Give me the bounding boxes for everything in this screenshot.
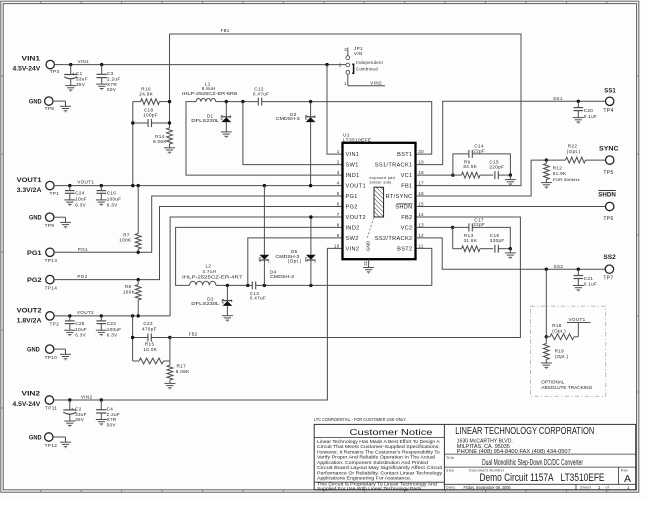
title block company — [455, 426, 594, 455]
pin 15 SHDN — [395, 202, 424, 211]
junction VOUT1 R10 branch — [131, 184, 134, 187]
node VOUT2 net label — [77, 310, 94, 315]
svg-text:VOUT1: VOUT1 — [569, 317, 586, 322]
svg-text:3: 3 — [314, 115, 316, 119]
svg-text:6: 6 — [337, 202, 340, 207]
node VIN2 net label — [81, 394, 93, 399]
svg-text:VOUT1: VOUT1 — [77, 180, 94, 185]
capacitor C21 — [573, 269, 597, 291]
svg-text:FB1: FB1 — [401, 184, 412, 190]
svg-text:C22: C22 — [143, 321, 153, 326]
capacitor C18 — [133, 108, 170, 127]
svg-text:C4: C4 — [107, 406, 114, 411]
svg-text:6.3V: 6.3V — [107, 333, 118, 338]
svg-text:31.6K: 31.6K — [464, 238, 478, 243]
svg-text:GND: GND — [366, 240, 371, 251]
svg-text:GND: GND — [29, 435, 42, 442]
wire PG1 row to pin 5 — [54, 196, 342, 252]
junction C2 — [68, 398, 71, 401]
svg-text:17: 17 — [418, 181, 424, 186]
svg-text:DFLS230L: DFLS230L — [191, 301, 220, 306]
wire C12 to BST1 — [262, 102, 432, 155]
svg-text:3: 3 — [230, 115, 232, 119]
diode D3 — [276, 102, 316, 186]
junction VOUT2 FB2 branch — [131, 314, 134, 317]
svg-text:TP14: TP14 — [45, 286, 58, 291]
svg-text:20: 20 — [418, 149, 424, 154]
terminal VIN1 TP3 — [13, 55, 60, 74]
svg-text:RT/SYNC: RT/SYNC — [386, 194, 413, 200]
optional absolute tracking box — [531, 306, 606, 396]
svg-text:VIN1: VIN1 — [78, 59, 90, 64]
wire pin13 VC2 — [416, 226, 453, 228]
capacitor C1 — [64, 65, 88, 92]
junction SW1 branch — [241, 100, 244, 103]
wire pin19 to SS1 row — [416, 101, 606, 164]
svg-text:0.47uF: 0.47uF — [250, 296, 266, 301]
pin 6 PG2 — [337, 202, 358, 211]
svg-text:OPTIONAL: OPTIONAL — [541, 379, 565, 384]
svg-text:FB1: FB1 — [221, 28, 230, 33]
terminal PG2 TP14 — [27, 275, 57, 290]
svg-text:C25: C25 — [75, 321, 85, 326]
svg-text:FB2: FB2 — [401, 215, 412, 221]
resistor R8 — [123, 280, 141, 316]
terminal SS1 TP4 — [603, 87, 615, 114]
pin 10 VIN2 — [334, 243, 359, 252]
junction C3 — [100, 63, 103, 66]
svg-text:VOUT1: VOUT1 — [346, 184, 366, 190]
wire VIN1 to pin 1 — [327, 65, 343, 155]
capacitor C15 — [489, 160, 510, 179]
svg-text:SW2: SW2 — [346, 236, 359, 242]
inductor L1 — [182, 81, 238, 101]
svg-text:FB2: FB2 — [189, 331, 198, 336]
svg-text:IND2: IND2 — [346, 226, 360, 232]
diode D2 — [191, 285, 233, 321]
resistor R9 — [453, 159, 493, 178]
junction D5 cathode — [263, 284, 266, 287]
svg-text:(Opt.): (Opt.) — [555, 354, 569, 359]
junction C19 right — [509, 247, 512, 250]
junction VIN1 pin1 branch — [325, 63, 328, 66]
pin 7 VOUT2 — [337, 212, 366, 221]
svg-text:1: 1 — [627, 485, 630, 490]
node PG1 net label — [78, 247, 88, 252]
capacitor C4 — [96, 400, 120, 427]
junction R18 R19 — [545, 335, 548, 338]
svg-text:PHONE (408) 954-8400 FAX (408: PHONE (408) 954-8400 FAX (408) 434-0507 — [457, 449, 571, 455]
resistor R10 — [133, 87, 170, 105]
ground VC1 — [505, 175, 516, 185]
svg-text:4.5V-24V: 4.5V-24V — [13, 401, 41, 408]
junction VOUT1 C16 — [100, 184, 103, 187]
pin 8 IND2 — [337, 222, 360, 231]
svg-text:TP3: TP3 — [50, 69, 60, 74]
title block frame — [314, 424, 636, 489]
wire C13 to BST2 — [256, 248, 432, 285]
wire R10 C18 left vertical to VOUT1 — [132, 102, 134, 186]
resistor R13 — [453, 227, 494, 251]
wire L2 to C13 — [216, 284, 252, 286]
svg-text:8.06K: 8.06K — [176, 369, 190, 374]
wire SW1 pin2 — [243, 102, 343, 165]
svg-text:10uF: 10uF — [75, 327, 87, 332]
terminal GND TP8 — [29, 97, 71, 112]
junction PG1 R7 — [137, 251, 140, 254]
junction C15 right — [509, 173, 512, 176]
wire SS2 to R18 — [545, 269, 547, 337]
svg-text:R18: R18 — [552, 323, 562, 328]
svg-text:PG1: PG1 — [78, 247, 88, 252]
svg-text:SYNC: SYNC — [599, 146, 619, 153]
svg-text:9: 9 — [337, 233, 340, 238]
ground VC2 — [505, 249, 516, 259]
capacitor C2 — [63, 400, 87, 427]
capacitor C20 — [573, 101, 597, 123]
svg-text:1: 1 — [344, 81, 347, 86]
svg-text:However, It Remains The Custom: However, It Remains The Customer's Respo… — [317, 449, 440, 454]
wire IND1 to L1 — [186, 102, 343, 176]
node VOUT1 flag at R18 — [567, 317, 591, 337]
pin 9 SW2 — [337, 233, 359, 242]
inductor L2 — [182, 264, 243, 286]
junction VOUT2 R8 — [137, 314, 140, 317]
capacitor C23 — [96, 316, 122, 338]
wire VIN1 row — [54, 64, 346, 66]
junction D2 — [226, 284, 229, 287]
terminal VOUT1 TP1 — [17, 177, 60, 196]
svg-text:Friday, September 08, 2006: Friday, September 08, 2006 — [464, 485, 511, 491]
svg-text:C16: C16 — [107, 191, 117, 196]
wire IND2 to L2 — [176, 227, 343, 285]
svg-text:3.3V/2A: 3.3V/2A — [17, 187, 42, 194]
svg-text:VIN2: VIN2 — [346, 247, 360, 253]
svg-text:Rev: Rev — [621, 469, 628, 473]
diode D5 — [259, 186, 302, 286]
node SS2 net label — [554, 264, 564, 269]
capacitor C24 — [64, 186, 87, 208]
resistor R17 — [164, 364, 190, 389]
svg-text:35V: 35V — [75, 417, 85, 422]
wire FB1 vertical — [169, 34, 171, 128]
svg-text:10.0K: 10.0K — [143, 347, 157, 352]
svg-text:BST1: BST1 — [397, 152, 412, 158]
node FB2 net label — [189, 331, 198, 336]
pin 13 VC2 — [401, 222, 425, 231]
svg-text:C3: C3 — [107, 71, 114, 76]
svg-text:R19: R19 — [555, 348, 565, 353]
wire VOUT2 row to pin 7 — [54, 217, 342, 316]
svg-text:VIN1: VIN1 — [346, 152, 360, 158]
pin 12 SS2/TRACK2 — [375, 233, 424, 242]
capacitor C25 — [64, 316, 87, 338]
svg-text:GND: GND — [27, 347, 40, 354]
svg-text:0.47uF: 0.47uF — [253, 91, 269, 96]
svg-text:BST2: BST2 — [397, 247, 412, 253]
svg-text:C1: C1 — [76, 71, 83, 76]
svg-text:6.3V: 6.3V — [75, 333, 86, 338]
svg-text:11: 11 — [418, 243, 423, 248]
svg-text:10uF: 10uF — [75, 197, 87, 202]
svg-text:TP5: TP5 — [603, 170, 613, 176]
svg-text:8.06K: 8.06K — [153, 139, 167, 144]
svg-text:CMDSH-3: CMDSH-3 — [270, 274, 294, 279]
svg-text:A: A — [624, 474, 631, 485]
junction VC2 — [451, 226, 454, 229]
svg-text:13: 13 — [418, 222, 424, 227]
junction R18 branch — [545, 268, 548, 271]
svg-text:VOUT1: VOUT1 — [17, 177, 42, 184]
svg-text:TP9: TP9 — [45, 223, 55, 228]
pin 11 BST2 — [397, 243, 424, 252]
svg-text:84.5K: 84.5K — [463, 164, 477, 169]
svg-text:5: 5 — [337, 191, 340, 196]
svg-text:solder side: solder side — [370, 180, 392, 184]
svg-text:SS2: SS2 — [554, 264, 564, 269]
junction VOUT1 D5 anode — [263, 184, 266, 187]
svg-text:C20: C20 — [584, 108, 594, 113]
svg-text:PG2: PG2 — [77, 274, 87, 279]
svg-text:LINEAR TECHNOLOGY CORPORATION: LINEAR TECHNOLOGY CORPORATION — [455, 426, 594, 437]
svg-text:100uF: 100uF — [107, 197, 122, 202]
svg-text:R15: R15 — [145, 341, 155, 346]
resistor R7 — [119, 186, 141, 253]
terminal GND TP10 — [27, 345, 71, 360]
terminal VIN2 TP11 — [13, 391, 58, 411]
capacitor C14 branch — [453, 144, 511, 176]
junction C1 — [69, 63, 72, 66]
svg-text:of: of — [606, 486, 610, 490]
wire FB2 row to pin 14 — [170, 217, 521, 338]
svg-text:1: 1 — [598, 485, 601, 490]
svg-text:Sheet: Sheet — [580, 486, 591, 490]
resistor R15 — [133, 341, 170, 364]
junction D3 — [309, 100, 312, 103]
svg-text:TP13: TP13 — [45, 258, 58, 263]
resistor R18 — [546, 323, 578, 340]
pin 17 FB1 — [401, 181, 424, 190]
wire VIN2 row to pin 10 — [54, 248, 343, 400]
diode D1 — [191, 102, 232, 138]
svg-text:DFLS230L: DFLS230L — [191, 118, 220, 123]
svg-text:Date:: Date: — [446, 486, 456, 490]
svg-text:VC2: VC2 — [401, 226, 413, 232]
junction D4 cathode — [309, 284, 312, 287]
pin 4 VOUT1 — [337, 181, 366, 190]
svg-text:TP10: TP10 — [45, 355, 58, 360]
svg-text:+: + — [71, 406, 74, 411]
svg-text:50V: 50V — [107, 87, 117, 92]
svg-text:4: 4 — [337, 181, 340, 186]
svg-text:+: + — [72, 71, 75, 76]
svg-text:TP1: TP1 — [50, 191, 60, 196]
svg-text:18: 18 — [418, 170, 424, 175]
pin 3 IND1 — [337, 170, 360, 179]
svg-text:IHLP-2525CZ-ER-4R7: IHLP-2525CZ-ER-4R7 — [182, 274, 243, 279]
svg-text:C24: C24 — [75, 191, 85, 196]
svg-text:TP11: TP11 — [45, 406, 57, 411]
junction C20 — [577, 100, 580, 103]
svg-text:4.5V-24V: 4.5V-24V — [13, 65, 41, 72]
svg-text:12: 12 — [418, 233, 424, 238]
svg-text:R22: R22 — [568, 143, 578, 148]
svg-text:R12: R12 — [553, 165, 563, 170]
terminal SS2 TP7 — [603, 254, 616, 282]
svg-text:CMDSH-3: CMDSH-3 — [276, 116, 300, 121]
svg-text:Applications Engineering For A: Applications Engineering For Assistance. — [317, 476, 411, 481]
node PG2 net label — [77, 274, 87, 279]
junction C4 — [100, 398, 103, 401]
svg-text:50V: 50V — [107, 422, 117, 427]
svg-text:3: 3 — [231, 299, 233, 303]
svg-text:Independent: Independent — [356, 60, 384, 65]
wire SW2 pin9 — [248, 238, 343, 286]
svg-text:PG1: PG1 — [27, 250, 42, 257]
svg-text:0.1uF: 0.1uF — [584, 282, 598, 287]
wire pin12 to SS2 row — [416, 238, 606, 269]
junction VC1 — [451, 173, 454, 176]
svg-text:SS2: SS2 — [603, 254, 616, 261]
svg-text:10: 10 — [334, 243, 340, 248]
svg-text:(Opt.): (Opt.) — [288, 258, 302, 263]
svg-text:61.9K: 61.9K — [553, 171, 567, 176]
note LTC confidential — [314, 417, 406, 422]
svg-text:GND: GND — [29, 215, 42, 222]
jumper JP1 — [339, 46, 384, 74]
svg-text:330pF: 330pF — [490, 238, 505, 243]
wire pin15 SHDN row — [416, 206, 606, 208]
svg-text:8: 8 — [337, 222, 340, 227]
junction PG2 R8 — [137, 278, 140, 281]
svg-text:SHDN: SHDN — [598, 191, 616, 198]
svg-text:470pF: 470pF — [142, 327, 157, 332]
title block customer notice — [317, 428, 443, 491]
svg-text:ABSOLUTE TRACKING: ABSOLUTE TRACKING — [541, 385, 593, 390]
terminal GND TP9 — [29, 213, 71, 228]
svg-text:Circuit Board Layout May Signi: Circuit Board Layout May Significantly A… — [317, 465, 443, 470]
svg-text:100K: 100K — [119, 238, 132, 243]
title block document number — [446, 469, 631, 486]
svg-text:VOUT2: VOUT2 — [77, 310, 94, 315]
svg-text:C21: C21 — [584, 276, 594, 281]
svg-text:6.3V: 6.3V — [75, 202, 86, 207]
svg-text:C2: C2 — [75, 406, 82, 411]
capacitor C17 — [453, 217, 511, 248]
pin 5 PG1 — [337, 191, 358, 200]
svg-text:VIN1: VIN1 — [22, 55, 41, 62]
svg-text:22pF: 22pF — [473, 222, 485, 227]
svg-text:(Opt.): (Opt.) — [552, 329, 566, 334]
terminal GND TP12 — [29, 433, 71, 448]
svg-text:1: 1 — [337, 149, 340, 154]
pin 2 SW1 — [337, 160, 359, 169]
terminal PG1 TP13 — [27, 248, 57, 263]
junction C18 left — [131, 121, 134, 124]
pin 14 FB2 — [401, 212, 424, 221]
svg-text:C23: C23 — [107, 321, 117, 326]
svg-text:LTC CONFIDENTIAL - FOR CUSTOME: LTC CONFIDENTIAL - FOR CUSTOMER USE ONLY — [314, 417, 406, 422]
wire VOUT2 to FB2 divider — [132, 316, 134, 361]
node FB1 net label — [221, 28, 230, 33]
svg-text:SHDN: SHDN — [395, 205, 412, 211]
pin 19 SS1/TRACK1 — [375, 160, 424, 169]
resistor R22 — [546, 143, 605, 163]
svg-text:220pF: 220pF — [489, 165, 504, 170]
svg-text:15: 15 — [418, 202, 424, 207]
resistor R12 — [541, 160, 580, 188]
svg-text:TP7: TP7 — [603, 276, 613, 282]
junction VOUT1 D3 anode — [309, 184, 312, 187]
svg-text:24.9K: 24.9K — [139, 92, 153, 97]
capacitor C13 — [250, 281, 266, 300]
pin 16 RT/SYNC — [386, 191, 425, 200]
junction D1 — [225, 100, 228, 103]
svg-text:PG1: PG1 — [346, 194, 358, 200]
svg-text:VOUT2: VOUT2 — [17, 307, 42, 314]
svg-text:TP12: TP12 — [45, 443, 58, 448]
svg-text:Dual Monolithic Step-Down DC/D: Dual Monolithic Step-Down DC/DC Converte… — [482, 457, 583, 467]
svg-text:100K: 100K — [123, 289, 136, 294]
svg-text:14: 14 — [418, 212, 424, 217]
svg-text:VIN2: VIN2 — [22, 391, 41, 398]
title block date row — [446, 485, 630, 491]
capacitor C3 — [96, 65, 120, 92]
svg-text:IND1: IND1 — [346, 173, 360, 179]
wire PG2 row to pin 6 — [54, 207, 342, 280]
junction D4 anode pin7 — [309, 215, 312, 218]
title block title — [446, 456, 583, 467]
junction C22 right FB2 — [168, 336, 171, 339]
resistor R19 — [541, 337, 569, 369]
svg-text:PG2: PG2 — [346, 205, 358, 211]
node VIN2 net flag — [370, 80, 382, 85]
svg-text:0.1uF: 0.1uF — [584, 114, 598, 119]
svg-text:Title: Title — [446, 456, 454, 460]
svg-text:SW1: SW1 — [346, 163, 359, 169]
resistor R14 — [153, 128, 175, 153]
svg-text:SS2/TRACK2: SS2/TRACK2 — [375, 236, 413, 242]
wire VOUT1 row — [54, 185, 342, 187]
svg-text:SS1: SS1 — [553, 96, 563, 101]
svg-text:3: 3 — [337, 170, 340, 175]
exposed pad GND leader — [366, 218, 374, 251]
svg-text:16: 16 — [418, 191, 424, 196]
svg-text:IHLP-2525CZ-ER-6R8: IHLP-2525CZ-ER-6R8 — [182, 91, 238, 96]
capacitor C12 — [253, 87, 269, 106]
svg-text:4.7uH: 4.7uH — [202, 269, 216, 274]
svg-text:FOR 500kHz: FOR 500kHz — [553, 177, 580, 182]
junction VOUT2 C23 — [100, 314, 103, 317]
node VIN1 net label — [78, 59, 90, 64]
svg-text:6.3V: 6.3V — [107, 202, 118, 207]
svg-text:TP8: TP8 — [45, 106, 55, 111]
capacitor C16 — [96, 186, 122, 208]
node VOUT1 net label — [77, 180, 94, 185]
junction SW2 branch — [246, 284, 249, 287]
terminal SYNC TP5 — [599, 146, 619, 177]
svg-text:VC1: VC1 — [401, 173, 413, 179]
svg-text:Combined: Combined — [356, 67, 378, 72]
svg-text:2: 2 — [339, 62, 342, 67]
junction C21 — [577, 268, 580, 271]
node SS1 net label — [553, 96, 563, 101]
capacitor C22 — [133, 321, 170, 341]
svg-text:VIN2: VIN2 — [370, 80, 382, 85]
svg-text:L2: L2 — [206, 264, 212, 269]
svg-text:GND: GND — [29, 99, 42, 106]
svg-text:VIN2: VIN2 — [81, 394, 93, 399]
